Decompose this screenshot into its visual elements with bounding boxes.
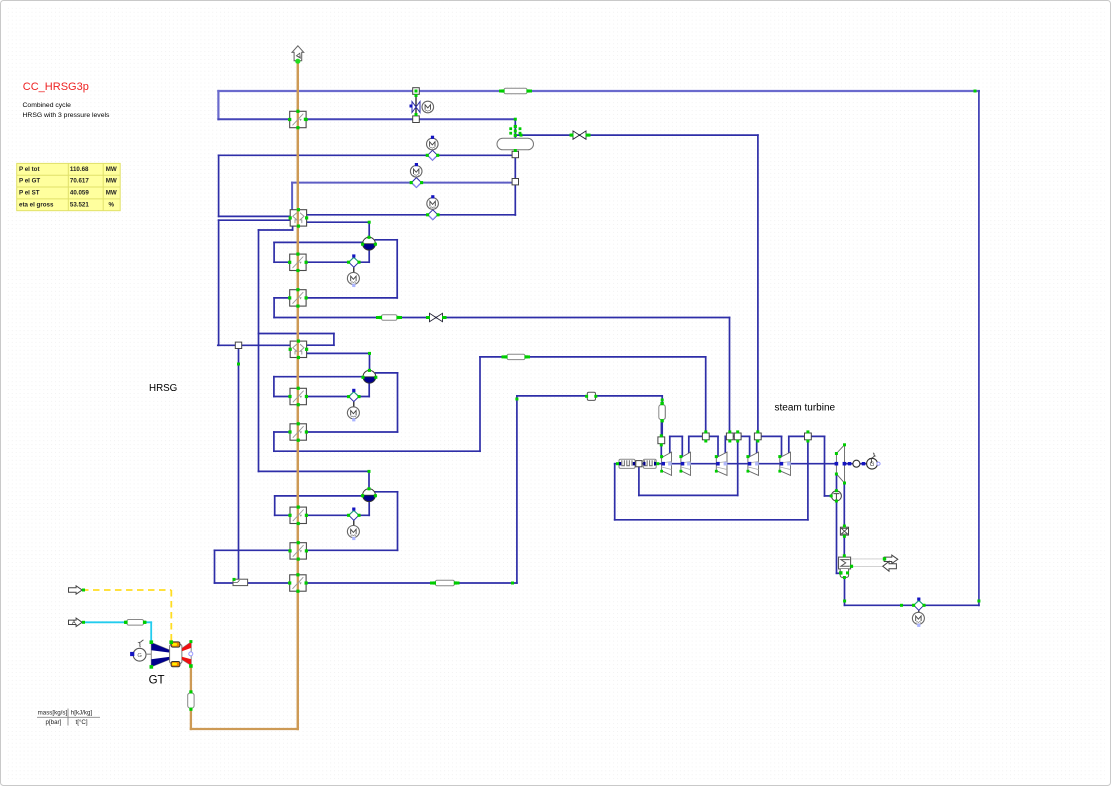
svg-text:P el tot: P el tot	[19, 166, 40, 173]
svg-text:HRSG with 3 pressure levels: HRSG with 3 pressure levels	[23, 112, 110, 119]
svg-text:40.059: 40.059	[70, 189, 89, 196]
svg-text:P el GT: P el GT	[19, 178, 40, 185]
svg-text:110.68: 110.68	[70, 166, 89, 173]
svg-text:MW: MW	[106, 166, 117, 173]
svg-text:h[kJ/kg]: h[kJ/kg]	[71, 710, 93, 717]
svg-text:t[°C]: t[°C]	[76, 719, 88, 726]
svg-text:steam turbine: steam turbine	[775, 403, 836, 414]
svg-text:Combined cycle: Combined cycle	[23, 102, 72, 109]
svg-text:mass[kg/s]: mass[kg/s]	[38, 710, 68, 717]
svg-text:HRSG: HRSG	[149, 383, 177, 394]
svg-text:eta el gross: eta el gross	[19, 201, 54, 208]
svg-text:G: G	[137, 653, 142, 659]
svg-text:A: A	[72, 621, 76, 627]
svg-text:G: G	[870, 461, 875, 468]
svg-text:p[bar]: p[bar]	[46, 719, 62, 726]
svg-text:%: %	[108, 201, 114, 208]
svg-text:GT: GT	[149, 675, 165, 687]
svg-text:70.617: 70.617	[70, 178, 89, 185]
svg-text:MW: MW	[106, 178, 117, 185]
svg-text:MW: MW	[106, 189, 117, 196]
svg-text:CC_HRSG3p: CC_HRSG3p	[23, 81, 89, 93]
svg-text:P el ST: P el ST	[19, 189, 40, 196]
svg-text:53.521: 53.521	[70, 201, 89, 208]
